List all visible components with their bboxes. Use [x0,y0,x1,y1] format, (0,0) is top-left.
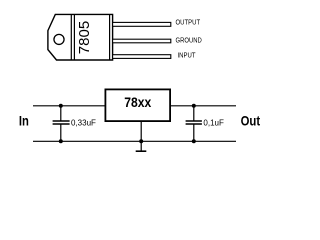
svg-text:0,33uF: 0,33uF [71,119,96,128]
svg-text:Out: Out [241,114,261,129]
svg-text:INPUT: INPUT [178,50,196,59]
svg-text:GROUND: GROUND [176,35,202,44]
svg-text:7805: 7805 [76,21,93,54]
svg-text:In: In [19,114,29,129]
svg-text:0,1uF: 0,1uF [203,119,224,128]
svg-text:OUTPUT: OUTPUT [176,17,201,26]
svg-text:78xx: 78xx [124,95,151,110]
